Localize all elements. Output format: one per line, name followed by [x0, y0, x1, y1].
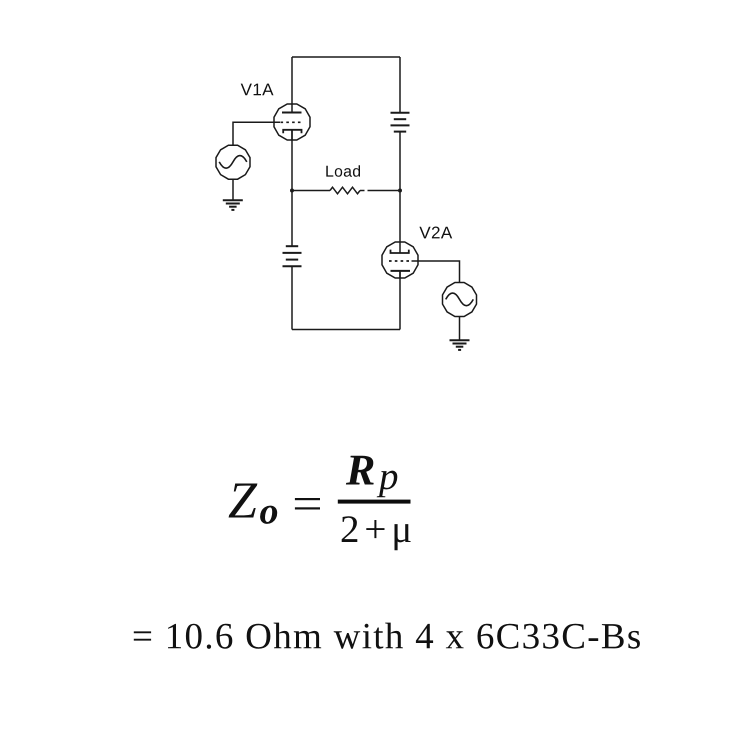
wire top rail (V1A plate to B2): [292, 56, 400, 58]
equation fraction bar: [338, 500, 411, 504]
wire S2 to ground: [459, 317, 461, 341]
result text line: [134, 623, 640, 649]
tube V1A: [274, 104, 310, 140]
wire V2A plate to bottom rail: [399, 271, 401, 330]
wire V2A grid lead to source S2: [412, 261, 460, 283]
equation equals sign: [295, 498, 320, 500]
label V2A: [419, 227, 452, 239]
AC source S1: [216, 145, 250, 179]
wire S1 to ground: [232, 179, 234, 200]
equation term Z: [229, 484, 258, 518]
label Load: [326, 165, 360, 177]
label V1A: [241, 84, 274, 96]
equation subscript o: [260, 506, 277, 524]
resistor Load: [292, 187, 400, 194]
equation numerator R: [346, 456, 374, 485]
ground G2: [450, 340, 470, 350]
tube V2A: [382, 242, 418, 278]
equation Zo = Rp/(2+mu): [229, 456, 411, 551]
AC source S2: [443, 283, 477, 317]
battery B1: [283, 246, 302, 266]
wire V1A grid lead from source S1: [233, 122, 280, 145]
wire bottom rail: [292, 329, 400, 331]
ground G1: [223, 200, 243, 210]
wire left rail upper: top rail into V1A plate: [291, 57, 293, 112]
wire B2 to node B: [399, 132, 401, 191]
equation numerator subscript p: [377, 471, 398, 498]
node B junction dot: [398, 189, 402, 193]
wire node B to V2A cathode: [399, 191, 401, 254]
wire B1 to bottom rail: [291, 266, 293, 329]
wire left rail: V1A cathode to node A: [291, 130, 293, 191]
wire node A to battery B1: [291, 191, 293, 247]
battery B2: [391, 113, 410, 132]
node A junction dot: [290, 189, 294, 193]
equation denominator 2+mu: [342, 516, 411, 550]
wire right rail upper: top rail to battery B2: [399, 57, 401, 113]
